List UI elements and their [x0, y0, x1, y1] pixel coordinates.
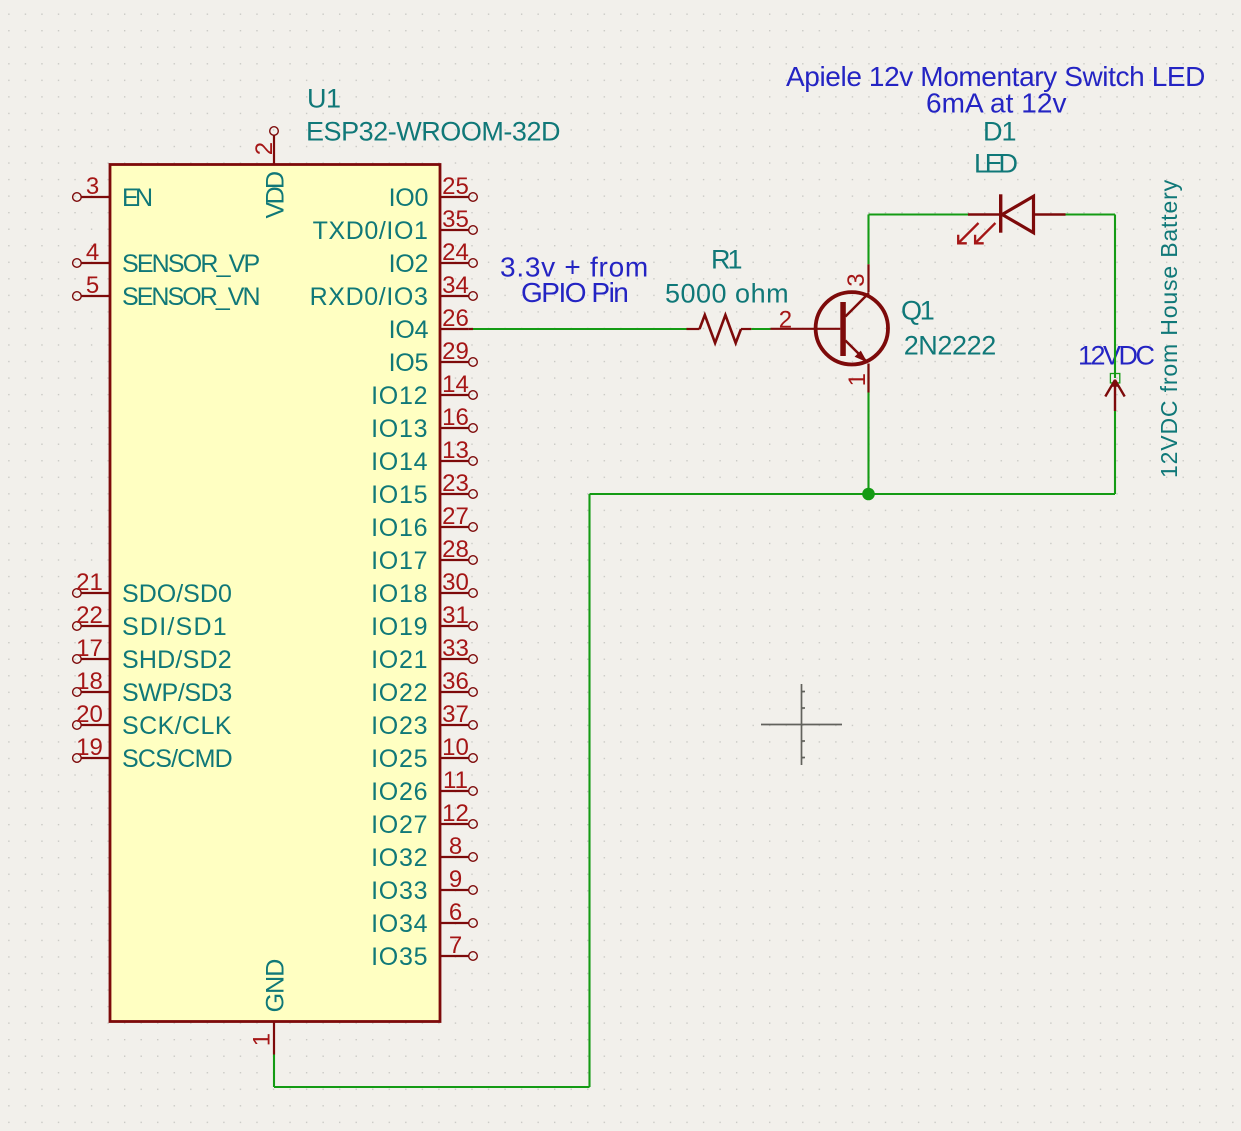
pin 18 SWP/SD3 [73, 668, 232, 707]
svg-text:1: 1 [844, 373, 871, 386]
svg-text:IO14: IO14 [371, 448, 428, 476]
svg-text:12VDC: 12VDC [1078, 341, 1154, 371]
wire Q1 emitter down [867, 364, 869, 495]
pin 2 VDD [251, 127, 290, 219]
wire 12VDC to bottom rail [1114, 411, 1116, 494]
pin 16 IO13 [371, 404, 477, 443]
svg-text:9: 9 [449, 866, 462, 893]
svg-text:VDD: VDD [262, 172, 290, 218]
svg-text:IO21: IO21 [371, 646, 428, 674]
svg-text:28: 28 [442, 536, 469, 563]
pin 3 EN [73, 173, 152, 212]
svg-text:IO33: IO33 [371, 877, 428, 905]
LED D1 [958, 196, 1065, 243]
power symbol 12VDC [1105, 374, 1124, 412]
pin 1 GND [249, 960, 290, 1055]
pin 21 SDO/SD0 [73, 569, 232, 608]
svg-text:6: 6 [449, 899, 462, 926]
svg-text:8: 8 [449, 833, 462, 860]
svg-text:30: 30 [442, 569, 469, 596]
svg-text:IO18: IO18 [371, 580, 428, 608]
svg-text:13: 13 [442, 437, 469, 464]
svg-text:SCK/CLK: SCK/CLK [122, 712, 232, 740]
pin 35 TXD0/IO1 [313, 206, 478, 245]
svg-text:SENSOR_VN: SENSOR_VN [122, 283, 260, 311]
svg-text:6mA at 12v: 6mA at 12v [926, 87, 1066, 118]
pin 27 IO16 [371, 503, 477, 542]
svg-text:ESP32-WROOM-32D: ESP32-WROOM-32D [306, 117, 560, 147]
svg-text:IO23: IO23 [371, 712, 428, 740]
svg-text:12VDC from House Battery: 12VDC from House Battery [1156, 179, 1182, 478]
svg-text:3: 3 [86, 173, 99, 200]
svg-text:14: 14 [442, 371, 469, 398]
svg-text:R1: R1 [711, 245, 741, 275]
pin 37 IO23 [371, 701, 477, 740]
pin 36 IO22 [371, 668, 477, 707]
pin 28 IO17 [371, 536, 477, 575]
svg-text:U1: U1 [307, 84, 341, 114]
svg-text:5: 5 [86, 272, 99, 299]
svg-text:27: 27 [442, 503, 469, 530]
pin 30 IO18 [371, 569, 477, 608]
svg-text:IO34: IO34 [371, 910, 428, 938]
junction emitter/bottom rail [862, 488, 875, 501]
svg-text:17: 17 [76, 635, 103, 662]
svg-text:GPIO Pin: GPIO Pin [521, 277, 627, 308]
pin 13 IO14 [371, 437, 477, 476]
svg-text:11: 11 [443, 767, 468, 794]
wire R1 to Q1 base [751, 328, 770, 330]
pin 6 IO34 [371, 899, 477, 938]
pin 25 IO0 [389, 173, 478, 212]
wire collector to LED [869, 213, 969, 215]
svg-text:IO19: IO19 [371, 613, 428, 641]
pin 8 IO32 [371, 833, 477, 872]
pin 34 RXD0/IO3 [310, 272, 478, 311]
svg-text:3: 3 [843, 273, 870, 286]
svg-text:GND: GND [262, 960, 290, 1013]
svg-text:24: 24 [442, 239, 469, 266]
svg-text:2: 2 [251, 142, 278, 155]
svg-text:12: 12 [442, 800, 469, 827]
svg-text:25: 25 [442, 173, 469, 200]
IC U1 ESP32-WROOM-32D body [110, 165, 440, 1022]
resistor R1 [687, 315, 752, 343]
pin 24 IO2 [389, 239, 478, 278]
svg-text:IO16: IO16 [371, 514, 428, 542]
wire left vertical [588, 494, 590, 1087]
pin 19 SCS/CMD [73, 734, 232, 773]
svg-text:SENSOR_VP: SENSOR_VP [122, 250, 260, 278]
svg-text:D1: D1 [983, 117, 1016, 147]
svg-text:2: 2 [779, 307, 792, 334]
svg-text:IO27: IO27 [371, 811, 428, 839]
pin 17 SHD/SD2 [73, 635, 232, 674]
svg-text:29: 29 [442, 338, 469, 365]
svg-text:31: 31 [442, 602, 469, 629]
svg-text:IO35: IO35 [371, 943, 428, 971]
wire right rail down to 12VDC [1114, 215, 1116, 379]
pin 7 IO35 [371, 932, 477, 971]
svg-text:IO2: IO2 [389, 250, 429, 278]
svg-text:Q1: Q1 [901, 296, 934, 326]
svg-text:IO26: IO26 [371, 778, 428, 806]
wire GND stub down [273, 1055, 275, 1088]
svg-text:SWP/SD3: SWP/SD3 [122, 679, 232, 707]
pin 10 IO25 [371, 734, 477, 773]
svg-text:2N2222: 2N2222 [904, 331, 996, 361]
svg-text:IO32: IO32 [371, 844, 428, 872]
wire LED to right rail [1066, 213, 1116, 215]
wire GND horizontal [274, 1086, 590, 1088]
pin 26 IO4 [389, 305, 473, 344]
svg-text:IO15: IO15 [371, 481, 428, 509]
wire IO4 to R1 [473, 328, 687, 330]
transistor Q1 2N2222 [771, 264, 889, 392]
svg-text:IO22: IO22 [371, 679, 428, 707]
svg-text:IO25: IO25 [371, 745, 428, 773]
svg-text:18: 18 [76, 668, 103, 695]
svg-text:LED: LED [974, 149, 1018, 179]
pin 31 IO19 [371, 602, 477, 641]
pin 23 IO15 [371, 470, 477, 509]
svg-text:35: 35 [442, 206, 469, 233]
svg-text:19: 19 [76, 734, 103, 761]
svg-text:16: 16 [442, 404, 469, 431]
svg-text:23: 23 [442, 470, 469, 497]
svg-text:33: 33 [442, 635, 469, 662]
wire bottom rail [590, 493, 1116, 495]
pin 20 SCK/CLK [73, 701, 232, 740]
svg-text:SHD/SD2: SHD/SD2 [122, 646, 232, 674]
pin 5 SENSOR_VN [73, 272, 260, 311]
pin 12 IO27 [371, 800, 477, 839]
svg-text:SDI/SD1: SDI/SD1 [122, 613, 228, 641]
svg-text:RXD0/IO3: RXD0/IO3 [310, 283, 429, 311]
svg-text:34: 34 [442, 272, 469, 299]
svg-text:7: 7 [449, 932, 462, 959]
wire Q1 collector up [867, 215, 869, 265]
pin 11 IO26 [371, 767, 477, 806]
pin 22 SDI/SD1 [73, 602, 228, 641]
svg-text:22: 22 [76, 602, 103, 629]
pin 33 IO21 [371, 635, 477, 674]
svg-text:21: 21 [76, 569, 103, 596]
svg-text:IO5: IO5 [389, 349, 429, 377]
cursor crosshair [761, 684, 842, 765]
pin 29 IO5 [389, 338, 478, 377]
svg-text:SDO/SD0: SDO/SD0 [122, 580, 232, 608]
svg-text:EN: EN [122, 184, 152, 212]
svg-text:4: 4 [86, 239, 99, 266]
svg-text:20: 20 [76, 701, 103, 728]
svg-text:IO4: IO4 [389, 316, 429, 344]
svg-text:26: 26 [442, 305, 469, 332]
svg-text:5000 ohm: 5000 ohm [665, 279, 789, 309]
svg-text:IO0: IO0 [389, 184, 429, 212]
svg-text:10: 10 [442, 734, 469, 761]
pin 4 SENSOR_VP [73, 239, 260, 278]
svg-text:IO13: IO13 [371, 415, 428, 443]
pin 14 IO12 [371, 371, 477, 410]
svg-text:TXD0/IO1: TXD0/IO1 [313, 217, 429, 245]
pin 9 IO33 [371, 866, 477, 905]
svg-text:IO17: IO17 [371, 547, 428, 575]
svg-text:37: 37 [442, 701, 469, 728]
svg-text:SCS/CMD: SCS/CMD [122, 745, 232, 773]
svg-text:1: 1 [249, 1033, 276, 1046]
svg-text:36: 36 [442, 668, 469, 695]
svg-text:IO12: IO12 [371, 382, 428, 410]
